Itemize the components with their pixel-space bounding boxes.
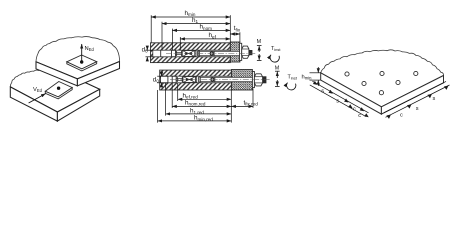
dim t_fix,red	[231, 105, 253, 107]
washer (bottom)	[252, 72, 254, 88]
dim h1 (top)	[162, 23, 230, 25]
expansion sleeve with bowtie (top)	[182, 51, 195, 57]
lower concrete block: front faces and right cut face	[10, 87, 99, 121]
concrete member (top section)	[151, 43, 231, 63]
lower block straight top edges	[10, 70, 99, 113]
svg-text:c: c	[400, 113, 403, 119]
right spacing dimension rows	[384, 81, 450, 117]
fixture plate (top) t_fix	[230, 42, 240, 62]
dim h_min,red	[158, 120, 232, 122]
bolt protruding end (top)	[249, 50, 253, 55]
slab straight top edges	[321, 73, 444, 107]
svg-text:s: s	[336, 98, 339, 104]
dim h_ef,red	[178, 98, 232, 100]
upper block straight top edges	[36, 62, 120, 79]
svg-text:Tinst: Tinst	[288, 74, 298, 80]
hex nut (bottom)	[254, 74, 262, 86]
dim d0 (top)	[146, 47, 153, 60]
svg-text:hmin,red: hmin,red	[194, 115, 213, 122]
concrete member (bottom section)	[160, 70, 232, 90]
centre line (bottom anchor)	[170, 79, 270, 81]
cone neck (top)	[176, 52, 183, 54]
dimension extension lines (top)	[151, 15, 240, 50]
bolt dot on lower plate	[57, 87, 60, 90]
svg-text:d0: d0	[153, 76, 160, 83]
slab front faces (thickness)	[321, 73, 444, 114]
upper concrete block: top face with torn back edge	[36, 37, 120, 79]
dim h_min (top)	[151, 16, 230, 18]
svg-text:c: c	[353, 107, 356, 113]
svg-text:h1: h1	[192, 17, 199, 24]
marking ring on shaft (bottom)	[211, 78, 214, 81]
anchor plate on upper block	[67, 55, 97, 71]
svg-text:tfix: tfix	[234, 25, 241, 32]
svg-text:VEd: VEd	[33, 87, 43, 93]
svg-text:s: s	[321, 89, 324, 95]
svg-text:c: c	[358, 113, 361, 119]
drill hole (top)	[153, 50, 231, 57]
svg-text:hnom: hnom	[200, 24, 213, 31]
svg-text:NEd: NEd	[85, 46, 95, 52]
anchor tip (top)	[172, 50, 176, 56]
fixture plate (bottom) t_fix,red	[231, 70, 252, 91]
left dimension ticks	[313, 81, 369, 117]
svg-text:M: M	[275, 66, 280, 72]
lower concrete block: top face	[10, 69, 99, 112]
svg-text:hef: hef	[209, 32, 217, 39]
dim t_fix (top)	[230, 33, 240, 35]
hex nut (top)	[242, 46, 249, 58]
marking ring on shaft (top)	[210, 52, 213, 55]
anchor plate on lower block	[45, 82, 72, 99]
dim h_nom (top)	[172, 29, 230, 31]
svg-text:s: s	[433, 96, 436, 102]
dim h_nom,red	[172, 105, 231, 107]
V_Ed force arrow	[29, 94, 46, 103]
svg-text:s: s	[416, 106, 419, 112]
washer (top)	[240, 43, 242, 60]
bolt dot on upper plate	[80, 60, 83, 63]
sleeve end bars (bottom)	[196, 77, 197, 82]
right dimension ticks	[386, 86, 448, 119]
left spacing dimension rows	[310, 81, 369, 116]
sleeve end bars (top)	[195, 51, 196, 56]
dim h_1,red	[166, 113, 232, 115]
bolt protruding end (bottom)	[263, 76, 267, 83]
centre line (top anchor)	[166, 53, 256, 55]
N_Ed force arrow	[81, 44, 83, 61]
anchor holes on slab	[345, 71, 418, 94]
svg-text:hnom,red: hnom,red	[185, 99, 206, 106]
anchor tip (bottom)	[172, 76, 176, 82]
slab thickness dimension	[310, 67, 321, 86]
dim d0 (bottom)	[157, 73, 168, 86]
slab top face with torn back edge	[321, 50, 444, 107]
svg-text:Tinst: Tinst	[271, 46, 281, 52]
dimension extension lines (bottom)	[158, 83, 253, 123]
anchor bolt shaft (top)	[198, 51, 249, 55]
upper concrete block: front faces	[36, 62, 120, 86]
anchor bolt shaft (bottom)	[199, 77, 263, 81]
svg-text:tfix,red: tfix,red	[244, 99, 259, 106]
expansion sleeve with bowtie (bottom)	[183, 77, 196, 83]
drill hole (bottom)	[161, 76, 232, 83]
cone neck (bottom)	[176, 78, 183, 80]
dim h_ef (top)	[180, 38, 230, 40]
svg-text:M: M	[257, 39, 262, 45]
